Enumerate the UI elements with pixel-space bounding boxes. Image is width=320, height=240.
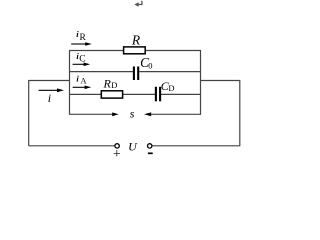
wire: outer right vertical (239, 80, 241, 146)
wire: s rail left segment with right arrowhead (69, 113, 113, 115)
svg-text:C: C (79, 55, 85, 65)
node: inner box right edge (wire) (200, 51, 202, 115)
svg-text:A: A (80, 75, 87, 85)
svg-text:R: R (80, 33, 87, 43)
svg-text:D: D (111, 80, 117, 90)
wire: bottom left to + terminal (29, 145, 115, 147)
wire: outer left vertical (28, 80, 30, 146)
wire: C0 rail right segment (139, 71, 201, 73)
current arrow iC (73, 51, 91, 66)
current arrow i (39, 88, 65, 104)
svg-text:U: U (128, 139, 138, 153)
resistor R (124, 47, 146, 54)
capacitor CD (156, 87, 160, 102)
resistor RD (101, 91, 122, 98)
wire: right exit (201, 80, 240, 82)
wire: C0 rail left segment (69, 71, 133, 73)
svg-text:i: i (48, 91, 51, 105)
terminal - circle (148, 144, 152, 148)
current arrow iR (71, 29, 92, 46)
svg-text:R: R (103, 76, 112, 90)
svg-text:R: R (131, 32, 141, 47)
label minus (148, 152, 153, 154)
wire: RD-CD rail left segment (69, 93, 102, 95)
wire: RD-CD rail middle segment (122, 93, 155, 95)
wire: left entry at node A (29, 80, 70, 82)
capacitor C0 (134, 67, 138, 81)
terminal + circle (115, 144, 119, 148)
current arrow iA (73, 74, 92, 89)
node: inner box left edge (wire) (69, 51, 71, 115)
wire: R rail right segment (145, 50, 201, 52)
svg-text:0: 0 (148, 61, 152, 71)
svg-text:D: D (168, 83, 174, 93)
wire: R rail left segment (69, 50, 124, 52)
wire: RD-CD rail right segment (161, 93, 201, 95)
svg-text:+: + (113, 147, 121, 162)
paragraph return mark (134, 1, 142, 7)
wire: bottom right from - terminal (152, 145, 240, 147)
wire: s rail right segment with left arrowhead (144, 112, 151, 116)
svg-text:s: s (130, 107, 135, 121)
